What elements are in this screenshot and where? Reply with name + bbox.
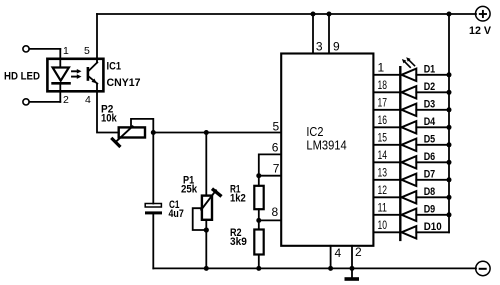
svg-text:9: 9 [333, 40, 340, 54]
wire pin5 to top rail [96, 14, 98, 62]
LED D1 emission arrows [402, 57, 415, 67]
svg-text:LM3914: LM3914 [306, 138, 346, 153]
wire bottom rail [153, 267, 476, 269]
wire pin8 [259, 219, 281, 221]
terminal +12V [476, 6, 491, 21]
wire C1 branch lower [152, 214, 154, 268]
wire pin5 line P2 to IC2 [153, 132, 281, 134]
transistor phototransistor inside IC1 [87, 68, 90, 79]
wire pin3 [312, 14, 314, 54]
wire pin6 loop [259, 154, 281, 175]
node junction top rail pin9 [327, 12, 332, 17]
svg-text:15: 15 [378, 130, 388, 144]
svg-text:4: 4 [335, 246, 342, 260]
svg-text:25k: 25k [181, 184, 198, 196]
P1 adjust arrow [201, 190, 216, 210]
svg-text:2: 2 [63, 94, 69, 106]
wire pin1 input [29, 48, 60, 50]
IC U2: IC2 LM3914 box [281, 54, 373, 246]
svg-text:2: 2 [355, 245, 362, 259]
svg-text:4u7: 4u7 [169, 208, 184, 220]
svg-text:CNY17: CNY17 [107, 77, 141, 89]
node junction P1 bottom [204, 227, 209, 232]
svg-text:10: 10 [378, 218, 388, 232]
ground [351, 268, 353, 277]
svg-text:11: 11 [378, 200, 388, 214]
LED D5 row [374, 137, 452, 152]
optocoupler IC1 CNY17 box [47, 59, 103, 92]
node junction top rail right rail [447, 12, 452, 17]
svg-text:18: 18 [378, 78, 388, 92]
svg-text:D1: D1 [424, 63, 436, 75]
svg-text:D4: D4 [424, 116, 436, 128]
LED D9 row [374, 207, 452, 222]
svg-text:D10: D10 [424, 221, 442, 233]
node junction top rail pin3 [311, 12, 316, 17]
LED D4 row [374, 120, 452, 135]
svg-text:8: 8 [272, 205, 279, 219]
svg-text:HD LED: HD LED [4, 71, 40, 83]
light arrows inside IC1 [72, 70, 78, 72]
svg-text:D3: D3 [424, 98, 436, 110]
LED D2 row [374, 85, 452, 100]
svg-text:D9: D9 [424, 203, 436, 215]
resistor R1 [258, 176, 260, 186]
svg-text:5: 5 [84, 45, 90, 57]
LED D3 row [374, 102, 452, 117]
svg-text:12 V: 12 V [469, 25, 492, 37]
svg-text:6: 6 [272, 141, 279, 155]
node junction pin7 R1 [256, 173, 261, 178]
wire P1 wiper loop [193, 208, 207, 230]
LED D6 row [374, 155, 452, 170]
resistor P2 potentiometer body [119, 127, 145, 137]
node junction bottom rail pin2 [350, 266, 355, 271]
wire P1 branch upper [205, 133, 207, 196]
svg-text:4: 4 [85, 94, 91, 106]
node junction P1 top [204, 130, 209, 135]
svg-text:1: 1 [63, 45, 69, 57]
terminal input top [23, 46, 29, 52]
LED D1 row [374, 67, 452, 82]
svg-text:10k: 10k [101, 113, 118, 125]
LED D7 row [374, 172, 452, 187]
svg-text:13: 13 [378, 165, 388, 179]
svg-text:3: 3 [316, 40, 323, 54]
LED D10 row [374, 225, 450, 240]
node junction bottom rail pin4 [328, 266, 333, 271]
svg-text:D5: D5 [424, 133, 436, 145]
svg-text:16: 16 [378, 113, 388, 127]
svg-text:3k9: 3k9 [230, 236, 247, 248]
svg-text:D6: D6 [424, 151, 436, 163]
LED D8 row [374, 190, 452, 205]
wire pin2 input [29, 101, 60, 103]
svg-text:1: 1 [378, 60, 385, 74]
terminal -12V [476, 261, 490, 275]
svg-text:1k2: 1k2 [230, 193, 246, 205]
wire pin4 down to P2 [97, 84, 119, 133]
resistor P1 potentiometer body [202, 196, 212, 220]
P2 adjust arrow [116, 126, 133, 142]
diode LED inside IC1 [59, 49, 61, 68]
wire P2 wiper loop [131, 119, 153, 133]
wire pin9 [328, 14, 330, 54]
svg-text:17: 17 [378, 95, 388, 109]
wire pin2 bottom [351, 246, 353, 269]
svg-text:14: 14 [378, 148, 388, 162]
svg-text:12: 12 [378, 183, 388, 197]
wire C1 branch upper [152, 133, 154, 204]
wire right LED rail [448, 14, 450, 232]
svg-text:D8: D8 [424, 186, 436, 198]
wire pin4 bottom [330, 246, 332, 269]
node junction pin8 R1 R2 [256, 218, 261, 223]
svg-text:7: 7 [273, 162, 280, 176]
svg-text:D2: D2 [424, 81, 436, 93]
node junction bottom rail R2 [256, 266, 261, 271]
capacitor C1 [145, 204, 161, 208]
svg-text:D7: D7 [424, 168, 436, 180]
node junction P2 right [151, 130, 156, 135]
wire top supply rail [97, 13, 476, 15]
svg-text:5: 5 [273, 120, 280, 134]
node junction bottom rail P1 [204, 266, 209, 271]
resistor R2 [254, 230, 263, 255]
wire P1 branch lower [205, 220, 207, 269]
terminal input bottom [23, 99, 29, 105]
wire pin7 [259, 175, 281, 177]
svg-text:IC1: IC1 [107, 61, 122, 73]
